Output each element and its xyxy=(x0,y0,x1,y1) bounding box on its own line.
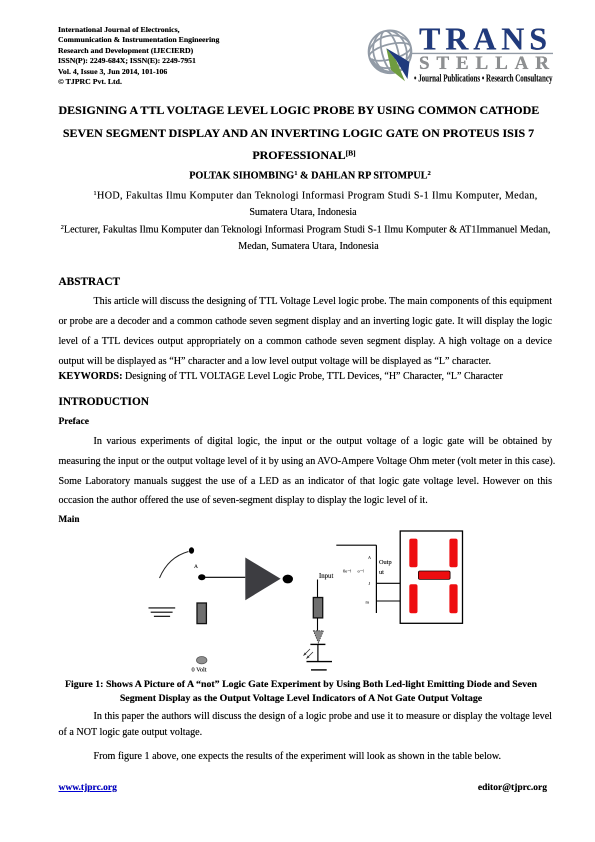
svg-text:TRANS: TRANS xyxy=(419,20,547,56)
svg-text:0e⊣: 0e⊣ xyxy=(343,569,351,574)
svg-text:Input: Input xyxy=(319,573,333,580)
svg-text:o⊣: o⊣ xyxy=(358,569,364,574)
svg-text:A: A xyxy=(194,564,198,570)
svg-text:A: A xyxy=(368,555,371,560)
svg-text:m: m xyxy=(366,600,370,605)
svg-text:J: J xyxy=(369,581,371,586)
svg-text:ut: ut xyxy=(379,569,384,576)
svg-text:• Journal Publications • Resea: • Journal Publications • Research Consul… xyxy=(414,73,553,84)
svg-text:0 Volt: 0 Volt xyxy=(192,667,207,674)
svg-text:Outp: Outp xyxy=(379,559,392,566)
